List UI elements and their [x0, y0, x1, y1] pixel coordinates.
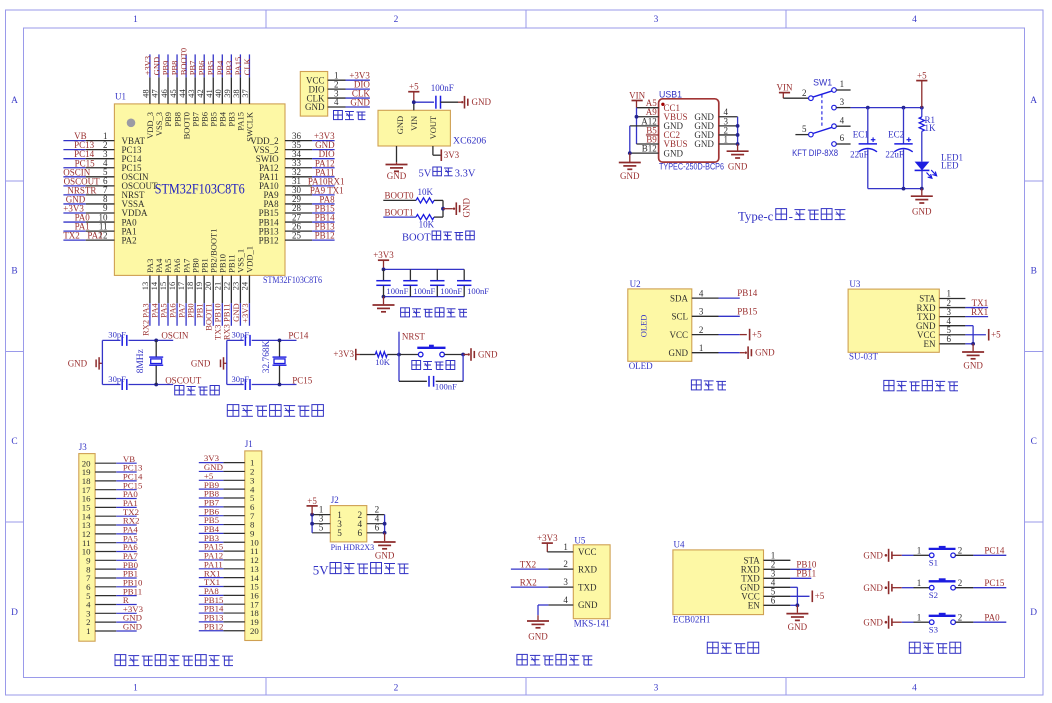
U2 pin 2 VCC: [669, 325, 739, 340]
J1 pin 11 net PA15: [199, 542, 259, 557]
ground GND (earth) power: [911, 196, 933, 216]
U1 pin 40 PB4 + wire/net top: [213, 54, 227, 126]
U1 pin 31 PA10 + wire/net right: [259, 176, 344, 191]
U1 pin 4 PC15 + wire/net left: [63, 158, 142, 173]
USB1 right pin 3 GND: [694, 116, 737, 131]
svg-text:6: 6: [947, 334, 952, 344]
svg-text:J2: J2: [331, 495, 339, 505]
svg-text:37: 37: [240, 89, 250, 98]
svg-text:SW1: SW1: [813, 77, 832, 87]
svg-text:U1: U1: [115, 92, 126, 102]
svg-text:U3: U3: [849, 279, 860, 289]
net label PB15: [737, 306, 758, 316]
svg-text:PC14: PC14: [984, 545, 1005, 555]
net label BOOT1: [385, 208, 414, 218]
svg-text:5V: 5V: [419, 169, 432, 180]
svg-text:TYPEC-250D-BCP6: TYPEC-250D-BCP6: [659, 161, 724, 171]
J1 pin 15 net TX1: [199, 577, 260, 592]
U1 pin 36 VDD_2 + wire/net right: [250, 131, 335, 146]
svg-text:100nF: 100nF: [431, 83, 454, 93]
U1 pin 28 PB15 + wire/net right: [259, 203, 335, 218]
svg-text:BOOT1: BOOT1: [385, 208, 414, 218]
svg-text:PB12: PB12: [259, 235, 279, 245]
J3 pin 2 net GND: [86, 613, 142, 628]
svg-text:1: 1: [699, 343, 704, 353]
U1 pin 1 VBAT + wire/net left: [63, 131, 145, 146]
ground (earth) filter caps: [373, 297, 395, 312]
svg-text:2: 2: [958, 578, 963, 588]
resistor 10K (BOOT0): [416, 187, 434, 203]
ground GND (bar) for S3: [863, 616, 901, 629]
J3 pin 7 net PB1: [86, 569, 138, 584]
svg-text:GND: GND: [912, 207, 932, 217]
U1 pin 38 PA15 + wire/net top: [231, 54, 245, 130]
svg-text:RX2: RX2: [520, 577, 537, 587]
net label PB14: [737, 288, 758, 298]
capacitor EC1 22uF: [850, 108, 877, 189]
U4 pin 3 TXD: [741, 569, 790, 584]
svg-text:S3: S3: [929, 625, 939, 635]
J3 pin 11 net PA5: [82, 533, 138, 548]
svg-text:SCL: SCL: [671, 312, 688, 322]
svg-text:Type-c: Type-c: [738, 209, 774, 223]
svg-text:B: B: [1031, 267, 1037, 277]
svg-text:LED: LED: [941, 161, 959, 171]
caption: MCU minimum system: [227, 405, 323, 417]
U5 pin 1 VCC: [563, 542, 596, 557]
caption: reset circuit: [412, 361, 455, 370]
J1 pin 16 net PA8: [199, 586, 260, 601]
svg-text:+3V3: +3V3: [240, 303, 250, 322]
wire RX2 to U5 TXD: [511, 577, 573, 587]
caption: independent buttons: [909, 642, 960, 653]
svg-text:D: D: [1030, 608, 1037, 618]
svg-text:+5: +5: [815, 591, 825, 601]
svg-text:PA2: PA2: [87, 231, 102, 241]
caption: bluetooth module: [707, 642, 758, 653]
SW1 linkage (dashed): [821, 95, 823, 128]
capacitor 100nF input: [431, 83, 454, 109]
U1 pin 23 VSS_1 + wire/net bottom: [230, 249, 245, 326]
caption: download port: [334, 111, 366, 120]
switch S2 push button: [929, 578, 956, 600]
svg-text:1: 1: [917, 578, 922, 588]
J1 pin 3 net +5: [199, 471, 255, 486]
svg-text:VIN: VIN: [777, 83, 793, 93]
svg-text:B: B: [11, 267, 17, 277]
wire U3 TXD + net RX1: [965, 307, 988, 317]
ground GND (bar) reset: [468, 348, 498, 361]
USB1 pin B5 CC2 stub: [646, 134, 659, 136]
U1 pin 27 PB14 + wire/net right: [259, 212, 335, 227]
svg-text:D: D: [11, 608, 18, 618]
download port pin 1 VCC + net +3V3: [306, 70, 370, 85]
svg-text:NRST: NRST: [402, 332, 426, 342]
wire filter cap rails: [382, 268, 465, 299]
diode LED1: [915, 152, 963, 187]
svg-text:-: -: [789, 209, 793, 223]
J1 pin 9 net PB4: [199, 524, 255, 539]
svg-text:GND: GND: [191, 359, 211, 369]
U4 pin 5 VCC: [741, 587, 790, 602]
wire VIN node: [412, 100, 434, 110]
J1 pin 8 net PB5: [199, 515, 255, 530]
net label OSCIN: [161, 331, 189, 341]
power 3V3 output: [441, 149, 459, 161]
U1 pin 44 BOOT0 + wire/net top: [177, 48, 191, 139]
U1 pin 22 PB11 + wire/net bottom: [221, 254, 236, 340]
J2 pin 6 (right): [358, 523, 385, 539]
ground GND (bar) OLED: [740, 346, 775, 359]
ground GND (earth) U3: [962, 344, 984, 371]
svg-text:OSCIN: OSCIN: [161, 331, 189, 341]
U1 pin 35 VSS_2 + wire/net right: [253, 140, 335, 155]
svg-text:+5: +5: [307, 496, 317, 506]
resistor R1 1K: [919, 108, 936, 162]
svg-text:10K: 10K: [417, 187, 433, 197]
U1 pin 14 PA4 + wire/net bottom: [149, 258, 164, 326]
power +3V3 (filter caps): [373, 250, 394, 269]
J1 pin 13 net PA11: [199, 559, 260, 574]
svg-text:30pF: 30pF: [108, 374, 126, 384]
U1 pin 8 VSSA + wire/net left: [63, 194, 145, 209]
J3 pin 5 net PB11: [86, 586, 142, 601]
power +3V3 (reset): [333, 349, 360, 360]
svg-text:2: 2: [958, 612, 963, 622]
svg-text:C: C: [1031, 437, 1037, 447]
svg-text:22uF: 22uF: [885, 150, 904, 160]
ground GND (earth) USB left: [619, 163, 641, 182]
ground GND (bar) crystal: [191, 357, 227, 369]
resistor 10K (reset): [375, 352, 391, 367]
USB1 pin B5 CC2: [646, 125, 680, 140]
wire VIN to SW1 pin2: [783, 88, 808, 98]
capacitor 100nF filter #1: [376, 269, 408, 296]
J2 pin 5 (left): [312, 523, 342, 539]
U1 pin 48 VDD_3 + wire/net top: [141, 54, 155, 139]
svg-text:6: 6: [771, 596, 776, 606]
wire TX2 to U5 RXD: [511, 559, 573, 569]
svg-text:1: 1: [86, 626, 90, 636]
svg-text:20: 20: [250, 626, 259, 636]
svg-text:PB11: PB11: [796, 569, 816, 579]
SW1 pole 5-4: [795, 124, 832, 137]
capacitor 100nF filter #2: [403, 269, 435, 296]
svg-text:100nF: 100nF: [386, 286, 408, 296]
wire S3 to net PA0: [955, 612, 1006, 622]
U1 pin 12 PA2 + wire/net left: [63, 230, 136, 245]
svg-text:24: 24: [239, 281, 249, 290]
J3 pin 9 net PA7: [86, 551, 138, 566]
svg-text:U4: U4: [674, 540, 685, 550]
wire crystal rail: [227, 340, 244, 384]
wire GND to S3: [902, 612, 930, 622]
svg-text:3: 3: [699, 307, 704, 317]
svg-text:RXD: RXD: [578, 564, 598, 574]
svg-text:GND: GND: [863, 617, 883, 627]
svg-text:+5: +5: [752, 330, 762, 340]
J2 pin 1 (left): [312, 504, 342, 520]
svg-text:VCC: VCC: [669, 330, 688, 340]
J1 pin 20 net PB12: [199, 621, 260, 636]
svg-text:22uF: 22uF: [850, 150, 869, 160]
svg-text:BOOT: BOOT: [402, 233, 431, 244]
power +5 (OLED): [740, 329, 762, 341]
svg-text:B12: B12: [642, 144, 657, 154]
svg-text:5: 5: [802, 124, 807, 134]
ground GND (earth) J2: [374, 542, 396, 561]
svg-text:S2: S2: [929, 590, 938, 600]
U1 pin 32 PA11 + wire/net right: [259, 167, 334, 182]
svg-text:3V3: 3V3: [444, 150, 460, 160]
caption: 5V step-down 3.3V: [419, 167, 476, 180]
wire SW1 pin3 to power rail: [851, 106, 924, 110]
svg-text:GND: GND: [387, 171, 407, 181]
svg-text:EC2: EC2: [888, 129, 904, 139]
capacitor EC2 22uF: [885, 108, 912, 189]
ground GND (earth) USB right: [727, 151, 749, 171]
power +5: [408, 82, 419, 103]
U3 pin 3 TXD: [917, 307, 965, 322]
svg-text:OSCOUT: OSCOUT: [165, 375, 202, 385]
U5 pin 2 RXD: [563, 559, 597, 574]
svg-text:TX2: TX2: [520, 559, 537, 569]
U4 pin 1 STA: [744, 551, 791, 566]
USB1 right pin 4 GND: [694, 107, 737, 122]
svg-text:A: A: [1030, 96, 1037, 106]
U1 pin 26 PB13 + wire/net right: [259, 221, 335, 236]
svg-text:+3V3: +3V3: [333, 349, 354, 359]
svg-text:GND: GND: [728, 161, 748, 171]
wire BOOT0: [383, 199, 416, 201]
download port pin 3 CLK + net CLK: [307, 88, 371, 103]
download port pin 2 DIO + net DIO: [309, 79, 371, 94]
J2 pin 4 (right): [358, 514, 385, 530]
svg-text:+3V3: +3V3: [373, 250, 394, 260]
USB1 right pin 2 GND: [694, 125, 737, 140]
net label PC14: [288, 331, 309, 341]
U2 pin 1 GND: [669, 343, 740, 358]
power VIN: [629, 91, 645, 108]
J2 pin 2 (right): [358, 504, 385, 520]
svg-text:GND: GND: [664, 148, 684, 158]
J1 pin 6 net PB7: [199, 497, 255, 512]
wire U4 GND/EN join: [790, 587, 799, 607]
svg-text:STM32F103C8T6: STM32F103C8T6: [263, 275, 322, 285]
download port pin 4 GND + net GND: [305, 97, 370, 112]
wire U4 VCC + power +5: [790, 591, 824, 603]
svg-text:6: 6: [840, 133, 845, 143]
U1 pin 34 SWIO + wire/net right: [256, 149, 335, 164]
svg-text:GND: GND: [478, 349, 498, 359]
U1 pin 3 PC14 + wire/net left: [63, 149, 142, 164]
svg-text:PC14: PC14: [288, 331, 309, 341]
svg-text:4: 4: [840, 115, 845, 125]
svg-text:VIN: VIN: [629, 91, 645, 101]
svg-text:OLED: OLED: [638, 315, 648, 338]
svg-text:10K: 10K: [419, 220, 435, 230]
wire VOUT to 3V3: [433, 146, 441, 155]
svg-text:GND: GND: [694, 139, 714, 149]
ground GND (bar) for S1: [863, 549, 901, 562]
svg-text:PA0: PA0: [984, 612, 1000, 622]
switch SW1 KFT DIP-8X8: [792, 77, 838, 158]
svg-text:J3: J3: [79, 442, 88, 452]
U1 pin 29 PA8 + wire/net right: [264, 194, 336, 209]
svg-text:30pF: 30pF: [232, 374, 250, 384]
svg-text:2: 2: [699, 325, 704, 335]
svg-text:1: 1: [133, 15, 138, 25]
J1 pin 5 net PB8: [199, 489, 255, 504]
J3 pin 16 net PA0: [82, 489, 139, 504]
U1 pin 20 PB2/BOOT1 + wire/net bottom: [203, 228, 218, 330]
wire USB GND left: [628, 126, 659, 162]
svg-text:1: 1: [133, 683, 138, 693]
svg-text:STM32F103C8T6: STM32F103C8T6: [155, 181, 245, 197]
U3 pin 4 GND: [916, 316, 965, 331]
J3 pin 4 net R: [86, 595, 137, 610]
wire switch to GND: [444, 353, 467, 357]
svg-text:TX2: TX2: [63, 231, 80, 241]
J1 pin 1 net 3V3: [199, 453, 255, 468]
U4 pin 4 GND: [740, 578, 790, 593]
U1 pin 9 VDDA + wire/net left: [63, 203, 148, 218]
svg-text:25: 25: [292, 230, 302, 240]
wire node to switch: [399, 354, 418, 356]
svg-text:TXD: TXD: [578, 582, 597, 592]
wire USB GND right rail: [736, 117, 740, 151]
svg-text:MKS-141: MKS-141: [574, 619, 610, 629]
U3 pin 5 VCC: [917, 325, 965, 340]
svg-text:PC15: PC15: [292, 375, 313, 385]
caption: display screen: [691, 380, 726, 390]
svg-text:SWCLK: SWCLK: [245, 111, 255, 142]
wire cap to junction: [252, 339, 297, 387]
connector USB1 TYPEC-250D-BCP6 body: [659, 89, 724, 171]
capacitor 30pF bottom: [232, 374, 251, 390]
svg-text:5: 5: [337, 528, 342, 538]
svg-text:3: 3: [654, 683, 659, 693]
svg-text:OLED: OLED: [629, 361, 653, 371]
crystal Y?: [136, 340, 163, 384]
svg-text:GND: GND: [669, 348, 689, 358]
svg-text:+5: +5: [917, 71, 927, 81]
wire reset cap loop: [399, 355, 463, 382]
svg-text:2: 2: [958, 545, 963, 555]
svg-text:GND: GND: [461, 198, 471, 218]
svg-text:GND: GND: [863, 583, 883, 593]
USB1 pin B9 VBUS: [646, 134, 687, 149]
caption: BOOT setting circuit: [402, 231, 474, 244]
svg-text:GND: GND: [578, 600, 598, 610]
svg-text:GND: GND: [788, 622, 808, 632]
U3 pin 2 RXD: [916, 298, 965, 313]
U1 pin 16 PA6 + wire/net bottom: [167, 259, 182, 326]
U1 pin 42 PB6 + wire/net top: [195, 54, 209, 126]
wire bottom power rail: [868, 187, 924, 196]
J2 pin 3 (left): [312, 514, 342, 530]
U3 pin 6 EN: [924, 334, 966, 349]
module U3 SU-03T body: [848, 279, 939, 362]
module U5 MKS-141 body: [573, 535, 610, 628]
USB1 pin A5 CC1: [646, 98, 680, 113]
svg-text:30pF: 30pF: [108, 329, 126, 339]
svg-text:SDA: SDA: [670, 293, 689, 303]
svg-text:EN: EN: [924, 339, 936, 349]
svg-text:VDD_1: VDD_1: [245, 246, 255, 273]
U2 pin 3 SCL: [671, 307, 739, 322]
svg-text:10K: 10K: [375, 357, 391, 367]
svg-text:VIN: VIN: [409, 116, 419, 131]
J3 pin 13 net RX2: [82, 516, 140, 531]
U1 pin 43 PB7 + wire/net top: [186, 54, 200, 126]
svg-text:1: 1: [917, 545, 922, 555]
svg-text:4: 4: [563, 595, 568, 605]
SW1 pin 4: [832, 115, 851, 128]
crystal Y?: [262, 340, 287, 384]
svg-text:U2: U2: [630, 279, 641, 289]
svg-text:2: 2: [802, 88, 807, 98]
wire to resistor: [360, 354, 375, 356]
U1 pin 33 PA12 + wire/net right: [259, 158, 335, 173]
resistor 10K (BOOT1): [416, 215, 435, 230]
SW1 pin 3: [832, 97, 851, 110]
J3 pin 12 net PA4: [82, 524, 139, 539]
caption: MCU pin breakout headers: [115, 655, 233, 666]
svg-text:4: 4: [334, 97, 339, 107]
SW1 pin 6: [832, 133, 851, 146]
svg-text:1: 1: [840, 79, 845, 89]
U1 pin 15 PA5 + wire/net bottom: [158, 259, 173, 326]
svg-text:100nF: 100nF: [467, 286, 489, 296]
caption: Type-c port power circuit: [738, 209, 845, 224]
U1 pin 11 PA1 + wire/net left: [63, 221, 136, 236]
connector J1 header body: [245, 439, 262, 640]
wire J2 right rail: [383, 515, 387, 542]
wire U4 TXD + net PB11: [790, 569, 816, 579]
wire NRST node: [387, 332, 401, 357]
svg-text:1: 1: [724, 134, 729, 144]
display U2 OLED body: [628, 279, 692, 371]
connector J2 Pin HDR2X3 body: [330, 495, 374, 552]
wire S2 to net PC15: [955, 578, 1006, 588]
power +3V3 (U5) + wire: [537, 533, 573, 552]
svg-text:30pF: 30pF: [232, 329, 250, 339]
wire U5 GND elbow: [538, 605, 573, 620]
U1 pin 47 VSS_3 + wire/net top: [150, 54, 164, 136]
J3 pin 17 net PC15: [82, 480, 143, 495]
J3 pin 10 net PA6: [82, 542, 139, 557]
switch S1 push button: [929, 546, 956, 568]
U1 pin 45 PB8 + wire/net top: [168, 54, 182, 126]
svg-text:RX1: RX1: [971, 307, 988, 317]
ground GND (bar, rotated) BOOT: [453, 198, 472, 218]
J3 pin 6 net PB10: [86, 577, 143, 592]
wire BOOT1: [383, 216, 416, 218]
svg-text:100nF: 100nF: [435, 381, 457, 391]
svg-text:8MHz: 8MHz: [136, 349, 146, 373]
U4 pin 2 RXD: [741, 560, 791, 575]
svg-text:PC15: PC15: [984, 578, 1005, 588]
svg-text:C: C: [11, 437, 17, 447]
U1 pin 46 PB9 + wire/net top: [159, 54, 173, 126]
svg-text:S1: S1: [929, 558, 938, 568]
connector download port (VCC/DIO/CLK/GND): [300, 72, 327, 117]
U1 pin 30 PA9 + wire/net right: [264, 185, 344, 200]
caption: chip filter capacitors: [401, 308, 467, 317]
svg-text:BOOT0: BOOT0: [385, 191, 414, 201]
svg-text:CLK: CLK: [242, 57, 252, 75]
